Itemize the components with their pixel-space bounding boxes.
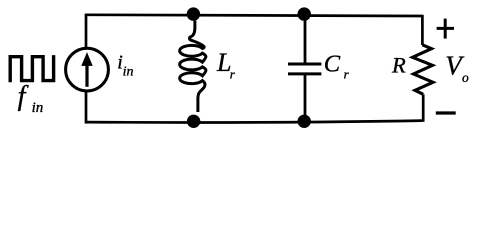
svg-text:o: o bbox=[462, 70, 469, 85]
svg-text:R: R bbox=[391, 52, 406, 77]
svg-text:in: in bbox=[123, 65, 134, 80]
node dot: bottom of capacitor branch bbox=[298, 115, 311, 128]
plus sign (output polarity) bbox=[437, 19, 454, 39]
resistor R top lead bbox=[421, 15, 424, 45]
minus sign (output polarity) bbox=[436, 111, 456, 114]
svg-text:r: r bbox=[344, 67, 350, 82]
label V_o bbox=[445, 51, 469, 86]
capacitor Cr plates bbox=[288, 64, 321, 74]
square-wave symbol (input waveform) bbox=[10, 55, 53, 82]
capacitor Cr top lead bbox=[304, 14, 307, 64]
left wire (current source branch) bbox=[85, 14, 88, 124]
current source I1 circle bbox=[66, 48, 109, 91]
resistor R zigzag bbox=[413, 45, 434, 95]
svg-text:C: C bbox=[324, 51, 341, 78]
label f_in bbox=[18, 81, 44, 116]
label C_r bbox=[324, 51, 350, 82]
svg-text:r: r bbox=[230, 67, 236, 82]
capacitor Cr bottom lead bbox=[304, 75, 307, 123]
label i_in bbox=[117, 51, 133, 79]
current source arrow bbox=[81, 52, 92, 87]
inductor Lr coil bbox=[180, 21, 206, 112]
svg-text:in: in bbox=[32, 100, 44, 116]
top rail wire bbox=[86, 15, 422, 16]
label L_r bbox=[216, 48, 236, 82]
bottom rail wire bbox=[86, 121, 422, 123]
node dot: top of capacitor branch bbox=[298, 7, 311, 20]
resistor R bottom lead bbox=[422, 94, 425, 122]
label R bbox=[391, 52, 406, 77]
node dot: bottom of inductor branch bbox=[187, 115, 200, 128]
node dot: top of inductor branch bbox=[187, 7, 200, 20]
svg-text:f: f bbox=[18, 81, 29, 112]
